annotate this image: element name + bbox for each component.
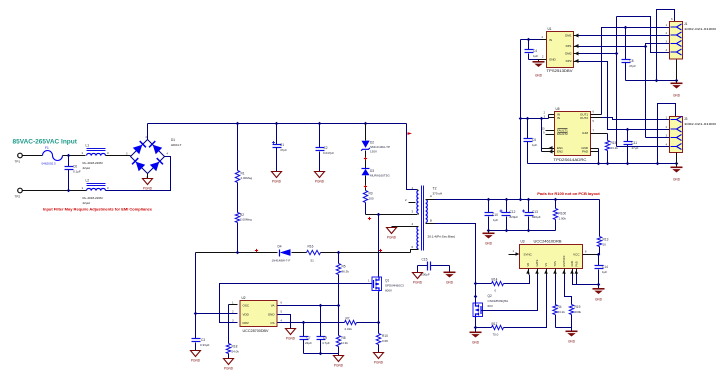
wire OUT1 to J1 VBUS <box>602 28 670 115</box>
svg-text:24.3k: 24.3k <box>341 341 349 345</box>
resistor R7 <box>345 320 357 324</box>
svg-text:Pads for R100 not on PCB layou: Pads for R100 not on PCB layout <box>537 191 600 196</box>
svg-text:PGND: PGND <box>374 360 384 364</box>
ground GND J3 <box>676 164 678 167</box>
node VDD junctions <box>236 251 240 255</box>
wire secondary bus <box>426 199 435 201</box>
wire U5 GND PAD <box>591 148 599 150</box>
svg-text:47µF: 47µF <box>280 148 287 152</box>
svg-text:RL-4018-220M: RL-4018-220M <box>83 161 104 165</box>
wire Q1 drain <box>378 215 380 277</box>
svg-text:SMCJ130A-TP: SMCJ130A-TP <box>370 145 390 149</box>
ground PGND bias <box>387 228 397 234</box>
svg-text:L1: L1 <box>86 144 90 148</box>
capacitor C14 <box>598 255 600 266</box>
svg-text:GND: GND <box>446 281 454 285</box>
svg-text:R15: R15 <box>611 141 617 145</box>
capacitor C3 <box>192 338 201 340</box>
ground GND U1 <box>538 60 540 62</box>
wire primary pin3 stub <box>418 214 420 215</box>
resistor R1 <box>235 171 239 183</box>
op-amp U3 UCC24610DRB <box>520 245 583 269</box>
wire R13 to VCC <box>599 247 601 255</box>
wire secondary gnd rail <box>489 230 556 232</box>
resistor R3 <box>363 191 367 203</box>
svg-text:R7: R7 <box>346 317 350 321</box>
svg-text:20:1:4(Pri:Sec:Bias): 20:1:4(Pri:Sec:Bias) <box>428 235 456 239</box>
wire R14 to VD pin <box>504 275 530 284</box>
svg-text:22µF: 22µF <box>305 341 312 345</box>
pins U3 bottom stubs <box>528 269 530 275</box>
ground PGND bridge <box>143 179 153 185</box>
ground PGND R10 <box>374 353 384 359</box>
svg-text:R100: R100 <box>559 212 567 216</box>
svg-text:GATE: GATE <box>535 259 539 266</box>
svg-text:PGND: PGND <box>413 280 423 284</box>
svg-text:Q2: Q2 <box>488 294 492 298</box>
transistor Q1 <box>374 277 380 292</box>
resistor R8 <box>338 306 340 336</box>
svg-text:51: 51 <box>311 259 315 263</box>
pins U1 right stubs <box>574 35 580 37</box>
svg-text:C13: C13 <box>532 210 538 214</box>
resistor R14 <box>492 281 504 285</box>
wire L1 to bridge <box>106 155 131 157</box>
capacitor C9 <box>320 306 322 337</box>
wire R5 to VS line <box>338 275 340 306</box>
svg-text:R8: R8 <box>342 336 346 340</box>
svg-text:VDD: VDD <box>243 312 250 316</box>
svg-text:L2: L2 <box>86 179 90 183</box>
svg-text:0.68: 0.68 <box>382 339 388 343</box>
fuse F1 <box>43 151 63 161</box>
svg-text:PAD: PAD <box>574 261 578 266</box>
svg-text:Q1: Q1 <box>385 279 389 283</box>
svg-text:TP2: TP2 <box>15 195 21 199</box>
svg-text:J1: J1 <box>684 22 688 26</box>
svg-text:SYNC: SYNC <box>524 253 533 257</box>
svg-text:1002-021-01000: 1002-021-01000 <box>684 27 716 31</box>
wire R3 to primary pin3 <box>365 203 367 215</box>
svg-text:PGND: PGND <box>315 179 325 183</box>
wire bias pin6 <box>411 250 419 253</box>
wire Q2 source <box>475 318 477 332</box>
svg-text:4.7µF: 4.7µF <box>322 341 330 345</box>
ground PGND C1 <box>272 172 282 178</box>
test point TP1 <box>18 153 23 158</box>
svg-text:600V: 600V <box>385 289 392 293</box>
svg-text:85VAC-265VAC Input: 85VAC-265VAC Input <box>13 139 78 146</box>
resistor R17 <box>492 325 504 329</box>
svg-text:PGND: PGND <box>143 186 153 190</box>
svg-text:U3: U3 <box>521 240 525 244</box>
svg-text:R19: R19 <box>575 305 581 309</box>
resistor R13 <box>597 237 601 247</box>
svg-text:GND: GND <box>268 312 276 316</box>
pins U5 IN stubs <box>549 114 555 116</box>
svg-text:C3: C3 <box>201 338 205 342</box>
wire R5 top <box>338 253 340 264</box>
wire J1 shell <box>657 10 675 81</box>
svg-text:R16: R16 <box>308 245 314 249</box>
svg-text:1µF: 1µF <box>602 270 607 274</box>
capacitor C12 <box>506 200 508 213</box>
svg-text:22µH: 22µH <box>83 166 90 170</box>
ground PGND C3 <box>191 351 201 357</box>
wire R18 to PGND <box>228 354 230 359</box>
wire ILIM to R15 <box>607 134 609 141</box>
svg-text:86.3k: 86.3k <box>342 270 350 274</box>
svg-text:PGND: PGND <box>286 336 296 340</box>
wire Q1 source to R10 <box>378 323 380 334</box>
svg-text:C5: C5 <box>532 138 536 142</box>
wire VD line <box>476 283 492 285</box>
ground PGND rail <box>338 354 340 356</box>
svg-text:RL-4018-220M: RL-4018-220M <box>83 196 104 200</box>
op-amp U1 TPS2513DBV <box>547 32 574 68</box>
svg-text:1µF: 1µF <box>493 218 498 222</box>
capacitor C5 <box>526 117 530 121</box>
wire J3 shell <box>658 104 676 164</box>
svg-text:PGND: PGND <box>272 179 282 183</box>
svg-text:GND: GND <box>595 298 603 302</box>
svg-text:820µF: 820µF <box>510 215 519 219</box>
svg-text:PGND: PGND <box>191 358 201 362</box>
svg-text:2.00Meg: 2.00Meg <box>241 176 253 180</box>
wire HV bus <box>148 123 407 125</box>
pin SYNC arrow <box>509 254 517 256</box>
svg-text:B: B <box>430 219 432 223</box>
svg-text:DRV: DRV <box>243 321 249 325</box>
svg-text:TP1: TP1 <box>15 160 21 164</box>
svg-text:GND: GND <box>485 242 493 246</box>
svg-text:PGND: PGND <box>224 366 234 370</box>
svg-text:U2: U2 <box>242 296 246 300</box>
wire bus to primary pin1 <box>407 124 417 190</box>
svg-text:C12: C12 <box>510 210 516 214</box>
wire 5V to U1 IN <box>521 39 541 41</box>
wire DP1 branch to J3 pin3 <box>645 47 647 138</box>
svg-text:2.00Meg: 2.00Meg <box>240 218 252 222</box>
svg-text:UCC28700DBV: UCC28700DBV <box>243 329 270 333</box>
capacitor C11 <box>627 130 629 142</box>
pin U5 ILIM stub <box>591 133 608 135</box>
wire GND PAD pins <box>573 275 599 285</box>
svg-text:OUT2: OUT2 <box>580 116 588 120</box>
ground GND C14 <box>593 288 605 290</box>
wire U2 GND to PGND <box>278 315 291 329</box>
svg-text:R14: R14 <box>492 278 498 282</box>
svg-text:U1: U1 <box>548 27 552 31</box>
wire J1 pin5 to gnd <box>676 60 678 81</box>
pin U5 OUT1 stub <box>591 114 602 116</box>
svg-text:IN: IN <box>549 38 552 42</box>
node AC1 junction <box>67 154 71 158</box>
svg-text:D3: D3 <box>370 169 374 173</box>
svg-text:TPS2513DBV: TPS2513DBV <box>547 69 574 73</box>
wire CS line <box>278 322 345 324</box>
ground PGND R18 <box>224 359 234 365</box>
diode D3 <box>362 168 370 170</box>
svg-text:47µF: 47µF <box>629 64 636 68</box>
node bus junctions <box>236 122 240 126</box>
svg-text:75.0: 75.0 <box>493 333 499 337</box>
wire TP1 to F1 <box>23 155 43 157</box>
svg-text:PAD: PAD <box>582 150 589 154</box>
ground PGND U2 <box>286 329 296 335</box>
wire U3 gnd rail <box>556 327 572 329</box>
svg-text:24.0k: 24.0k <box>232 350 240 354</box>
capacitor C10 <box>488 200 490 213</box>
svg-text:1002-021-01000: 1002-021-01000 <box>684 122 716 126</box>
node VD junction <box>474 282 478 286</box>
svg-text:10: 10 <box>603 243 607 247</box>
svg-text:GND: GND <box>673 94 681 98</box>
pin U5 OUT2 stub <box>591 117 602 119</box>
wire EN/TOFF to R19 <box>565 275 572 305</box>
svg-text:VA: VA <box>271 304 275 308</box>
wire D2 to D3 <box>365 151 367 169</box>
wire lower gnd rail <box>528 163 677 165</box>
connector J3 <box>670 117 683 153</box>
wire VDD pin <box>196 313 238 315</box>
svg-text:0462002.5: 0462002.5 <box>42 162 57 166</box>
svg-text:J3: J3 <box>684 117 688 121</box>
svg-text:VD: VD <box>526 263 530 267</box>
wire bus to R13 <box>599 200 601 237</box>
wire DP2 to J3 pin2 <box>580 62 670 130</box>
svg-text:GND: GND <box>568 340 576 344</box>
svg-text:GND: GND <box>472 341 480 345</box>
pin U1 IN stub <box>541 39 547 41</box>
wire VDD vertical <box>195 253 197 339</box>
svg-text:C14: C14 <box>602 265 608 269</box>
svg-text:C8: C8 <box>630 59 634 63</box>
wire R10 to PGND <box>378 345 380 353</box>
wire C15 left to PGND <box>417 266 419 273</box>
svg-text:C1: C1 <box>280 143 284 147</box>
pin VCC stub <box>583 254 599 256</box>
pins U5 FAULT stubs <box>546 130 555 132</box>
svg-text:C15: C15 <box>422 258 428 262</box>
svg-text:U5: U5 <box>556 107 560 111</box>
svg-text:C6: C6 <box>73 165 77 169</box>
resistor R10 <box>376 334 380 345</box>
svg-text:A: A <box>430 194 432 198</box>
wire TP2 to L2 <box>23 190 87 192</box>
svg-text:R5: R5 <box>342 265 346 269</box>
node snubber junction <box>377 213 381 217</box>
svg-text:0.047µF: 0.047µF <box>323 151 334 155</box>
resistor R18 <box>226 344 230 354</box>
resistor R15 <box>605 141 609 151</box>
svg-text:GND: GND <box>673 178 681 182</box>
wire C4 to U1 GND <box>529 59 539 61</box>
wire Q1 source <box>378 292 380 323</box>
wire OUT2 to J3 pin1 <box>602 118 670 120</box>
inductor L2 <box>87 183 106 185</box>
node AC2 junction <box>67 189 71 193</box>
svg-text:R13: R13 <box>603 238 609 242</box>
svg-text:T2: T2 <box>433 187 437 191</box>
ground PGND C2 <box>315 172 325 178</box>
bridge rectifier D1 <box>131 140 165 174</box>
resistor R4 <box>555 275 557 305</box>
svg-text:D1: D1 <box>171 138 175 142</box>
node VDD cap junction <box>194 312 198 316</box>
svg-text:370 uH: 370 uH <box>433 192 443 196</box>
wire VS line <box>278 305 339 307</box>
wire bus to D2 <box>365 124 367 141</box>
wire DM2 to J3 pin4 <box>580 53 617 55</box>
svg-text:OSC: OSC <box>243 304 250 308</box>
svg-text:C9: C9 <box>323 336 327 340</box>
svg-text:R1: R1 <box>241 172 245 176</box>
resistor R100 <box>555 200 557 209</box>
svg-text:22µH: 22µH <box>83 201 90 205</box>
wire R17 to VS pin <box>504 275 547 328</box>
svg-text:PGND: PGND <box>334 363 344 367</box>
wire bridge- to PGND <box>147 174 149 179</box>
svg-text:Input Filter May Require Adjus: Input Filter May Require Adjustments for… <box>43 207 153 212</box>
svg-text:C10: C10 <box>492 213 498 217</box>
inductor L1 <box>87 148 106 150</box>
svg-text:GND: GND <box>570 261 574 267</box>
node secondary bus junctions <box>487 198 491 202</box>
svg-text:R17: R17 <box>492 322 498 326</box>
svg-text:IN: IN <box>557 116 560 120</box>
ground GND J1 <box>676 81 678 83</box>
svg-text:ILIM: ILIM <box>582 131 588 135</box>
svg-text:PGND: PGND <box>387 235 397 239</box>
svg-text:DM2: DM2 <box>565 52 572 56</box>
svg-text:1µF: 1µF <box>532 143 537 147</box>
transformer T2 <box>417 191 419 214</box>
wire Q2 gate <box>482 275 538 311</box>
svg-text:TPD2S614ADRC: TPD2S614ADRC <box>554 158 588 162</box>
svg-text:D4: D4 <box>278 245 282 249</box>
svg-text:60V: 60V <box>488 304 493 308</box>
wire 5V rail vertical <box>520 40 522 200</box>
svg-text:D2: D2 <box>370 141 374 145</box>
svg-text:200: 200 <box>369 197 374 201</box>
svg-text:130V: 130V <box>370 150 377 154</box>
node VS junctions <box>319 304 323 308</box>
wire R2 to VDD line <box>237 223 239 253</box>
wire bias pin4 to PGND <box>392 226 419 228</box>
node CS junctions <box>302 321 306 325</box>
svg-text:0.1µF: 0.1µF <box>73 169 81 173</box>
svg-text:CSD18533Q5A: CSD18533Q5A <box>488 299 509 303</box>
capacitor C4 <box>528 40 530 50</box>
svg-text:HD04-T: HD04-T <box>171 143 182 147</box>
svg-text:R4: R4 <box>558 305 562 309</box>
wire C15 right to GND <box>449 266 451 272</box>
svg-text:DM1: DM1 <box>565 34 572 38</box>
svg-text:EN/TOFF: EN/TOFF <box>562 255 566 266</box>
wire VDD aux line <box>196 252 278 254</box>
svg-text:C7: C7 <box>307 336 311 340</box>
svg-text:C11: C11 <box>632 141 638 145</box>
ground GND Q2 <box>470 332 482 334</box>
wire 5V to U5 IN <box>521 118 549 120</box>
svg-text:2.01k: 2.01k <box>345 327 353 331</box>
wire R7 to Q1 source node <box>357 322 379 324</box>
op-amp U5 TPD2S614ADRC <box>555 112 591 156</box>
wire J1 pin4 feed <box>617 17 670 53</box>
wire secondary return pin B <box>426 223 435 225</box>
resistor R19 <box>569 305 573 315</box>
svg-text:GND: GND <box>549 57 557 61</box>
wire DM1 to J1 <box>579 35 670 37</box>
svg-text:VS: VS <box>544 263 548 267</box>
capacitor C13 <box>528 200 530 213</box>
ground GND C15 <box>444 272 456 274</box>
ground GND U3 <box>571 328 573 331</box>
svg-text:UCC24610DRB: UCC24610DRB <box>534 240 563 244</box>
ground GND secondary <box>488 231 490 233</box>
wire VS R17 line <box>476 327 492 329</box>
resistor R5 <box>336 264 340 275</box>
connector J1 <box>670 22 683 60</box>
svg-text:0.33µF: 0.33µF <box>200 343 210 347</box>
capacitor C2 <box>319 124 321 148</box>
svg-text:200k: 200k <box>575 310 582 314</box>
svg-text:EN2: EN2 <box>557 150 563 154</box>
transistor Q2 <box>476 303 482 318</box>
capacitor C6 <box>68 156 70 167</box>
resistor R16 <box>307 250 321 254</box>
svg-text:DP1: DP1 <box>566 44 572 48</box>
test point TP2 <box>18 188 23 193</box>
wire DP1 to J1 <box>580 44 670 47</box>
wire J3 pin5 to gnd <box>676 153 678 164</box>
svg-text:1.00k: 1.00k <box>559 217 567 221</box>
wire OSC to R18 <box>229 304 238 306</box>
ground PGND C15 <box>413 273 423 279</box>
capacitor C7 <box>303 323 305 337</box>
svg-text:F1: F1 <box>45 146 49 150</box>
capacitor C1 <box>276 124 278 145</box>
diode D2 TVS <box>362 141 370 148</box>
diode D4 <box>279 250 281 257</box>
resistor R2 <box>235 213 239 223</box>
svg-text:820µF: 820µF <box>532 215 541 219</box>
wire bus to R1 <box>237 124 239 171</box>
svg-text:1N4148W-7-F: 1N4148W-7-F <box>272 259 291 263</box>
wire DRV to Q1 gate <box>220 284 373 323</box>
wire bridge+ to bus <box>147 124 149 140</box>
wire EN tie <box>540 117 544 121</box>
op-amp U2 UCC28700DBV <box>240 301 277 327</box>
svg-text:MURA160T3G: MURA160T3G <box>370 174 390 178</box>
wire cap bottom rail <box>304 353 339 355</box>
svg-text:DP2: DP2 <box>566 59 572 63</box>
wire L2 to bridge right <box>106 157 171 191</box>
wire D3 to R3 <box>365 176 367 191</box>
svg-text:C4: C4 <box>533 49 537 53</box>
svg-text:SPD04N60C3: SPD04N60C3 <box>385 284 404 288</box>
svg-text:R2: R2 <box>240 213 244 217</box>
svg-text:C2: C2 <box>324 146 328 150</box>
svg-text:1µF: 1µF <box>533 54 538 58</box>
svg-text:R3: R3 <box>369 192 373 196</box>
svg-text:VCC: VCC <box>573 253 580 257</box>
wire J1 gnd rail <box>626 80 677 82</box>
capacitor C15 <box>427 262 429 271</box>
wire F1 to C6 node <box>63 155 86 157</box>
svg-text:R18: R18 <box>232 345 238 349</box>
